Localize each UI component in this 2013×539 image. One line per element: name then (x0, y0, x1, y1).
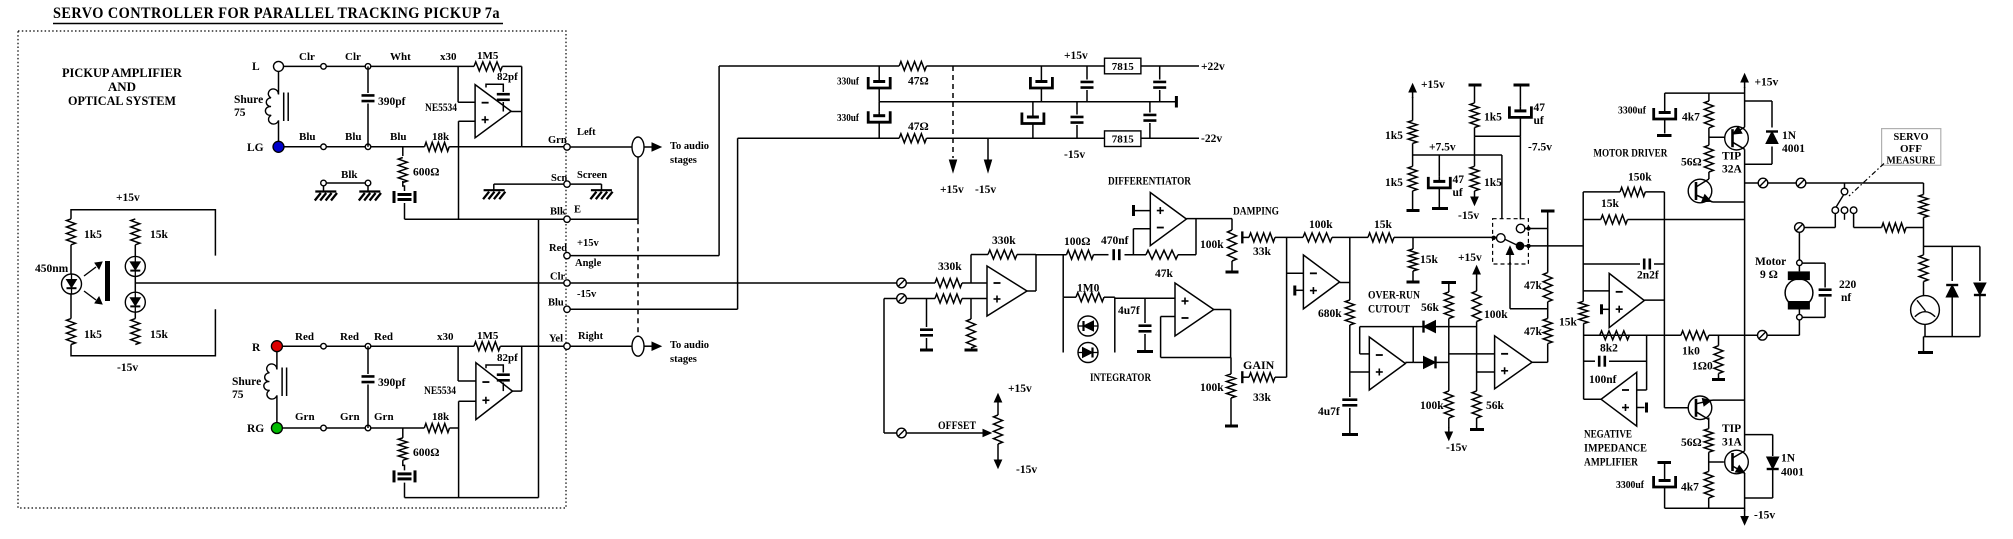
connector (slashed) angle signal (897, 278, 907, 288)
svg-text:OPTICAL SYSTEM: OPTICAL SYSTEM (68, 93, 176, 108)
wire+arrow: offset pot to +15v (997, 400, 999, 415)
0v tick on NIA + input (1637, 407, 1645, 409)
wire: over-run + input from lag node (1350, 371, 1370, 373)
svg-text:15k: 15k (1559, 317, 1578, 329)
feed-through capacitor (right channel 600ohm return) (403, 460, 405, 470)
svg-text:47Ω: 47Ω (908, 76, 929, 88)
svg-text:+15v: +15v (577, 238, 599, 249)
capacitor 470nf (series) (1112, 249, 1115, 260)
resistor 47ohm (+ rail) (899, 62, 926, 71)
wire: output rail lower section (1744, 473, 1746, 511)
svg-text:330k: 330k (938, 261, 962, 273)
svg-text:1Ω0: 1Ω0 (1692, 361, 1713, 373)
wire: 4k7 to bottom row (1708, 498, 1710, 508)
svg-text:8k2: 8k2 (1600, 343, 1618, 355)
svg-text:4u7f: 4u7f (1118, 305, 1140, 317)
svg-text:3300uf: 3300uf (1618, 105, 1646, 117)
svg-text:TIP: TIP (1722, 151, 1741, 163)
resistor 330k (non-inverting input, unlabelled) (906, 298, 935, 300)
op-amp over-run cutout (1369, 337, 1405, 390)
wire: over-run output to lower diode (1405, 361, 1413, 363)
svg-text:+15v: +15v (1421, 79, 1445, 91)
wire: damping 33k to summing node (1275, 236, 1303, 238)
resistor 4k7 (lower bias) (1704, 471, 1713, 498)
svg-text:SERVO CONTROLLER FOR PARALLEL: SERVO CONTROLLER FOR PARALLEL TRACKING P… (53, 5, 500, 22)
wire: measure resistor to meter chain (1906, 227, 1923, 229)
arrow +15v (bias chain) (1412, 90, 1414, 98)
svg-text:450nm: 450nm (35, 263, 69, 275)
resistor 680k (lag network) (1345, 300, 1354, 325)
cable ellipse (left output) (632, 137, 644, 157)
clamp diode (circled, pointing right) (1078, 343, 1098, 363)
resistor 600ohm (left channel) (402, 147, 404, 156)
capacitor 100nf (NIA) (1584, 360, 1595, 362)
capacitor 3300uf (- rail reservoir) (1664, 464, 1666, 476)
resistor 47k (lower, to switch node) (1543, 319, 1552, 344)
svg-text:1M0: 1M0 (1077, 283, 1100, 295)
resistor 33k (damping) (1244, 236, 1250, 238)
svg-text:Red: Red (295, 331, 314, 343)
feed-through capacitor (left channel 600ohm return) (403, 181, 405, 191)
wire: driver output vertical to both base rows (1663, 192, 1665, 408)
svg-text:TIP: TIP (1722, 423, 1741, 435)
op-amp negative impedance amplifier (points left) (1601, 372, 1637, 426)
svg-text:75: 75 (232, 389, 244, 401)
svg-text:33k: 33k (1253, 246, 1272, 258)
regulator 7815 (-) (1105, 131, 1141, 147)
svg-text:32A: 32A (1722, 164, 1743, 176)
wire: output to main node (1027, 290, 1036, 292)
0v bar above right bias chain (1469, 84, 1482, 87)
wire: lower base row (1664, 407, 1688, 409)
svg-text:100k: 100k (1484, 309, 1508, 321)
potentiometer offset (vertical) (994, 415, 1003, 444)
light ray arrows from LED (84, 267, 96, 276)
LED 450nm (62, 274, 82, 294)
svg-text:RG: RG (247, 423, 264, 435)
0v bar under damping pot (1226, 271, 1239, 274)
resistor 56k (pulldown to 0v bar) (1472, 391, 1481, 418)
arrow -15v (bias chain) (1474, 191, 1476, 199)
svg-text:47k: 47k (1524, 326, 1543, 338)
capacitor 330uf (input, + rail) (878, 66, 880, 77)
resistor 100k (summing) (1303, 233, 1332, 242)
wire: 1M5 to feedback vertical and Yel terminal (500, 345, 567, 347)
0v tick on error amp + input (1293, 286, 1296, 296)
capacitor 47uf (+7.5v rail) (1438, 155, 1440, 177)
wire: R to coil, coil to RG (276, 352, 278, 370)
svg-text:-15v: -15v (1064, 149, 1085, 161)
wire: screen row to outside ground (570, 183, 601, 185)
motor terminal (upper) (1797, 260, 1803, 266)
wire: upper driver emitter to output rail (1713, 201, 1745, 203)
capacitor 390pf (left channel) (367, 66, 369, 93)
wire: 4k7 to 56 ohm, base tap (1708, 128, 1710, 145)
potentiometer 100k DAMPING (1231, 219, 1233, 230)
dash-dot pointer from box to switch (1849, 164, 1884, 197)
svg-text:+7.5v: +7.5v (1429, 142, 1456, 154)
0v bar under meter (1918, 351, 1933, 354)
wire: +15v rail into TIP32A emitter (1744, 87, 1746, 127)
svg-text:Right: Right (578, 331, 604, 342)
svg-text:-15v: -15v (1016, 464, 1037, 476)
wire: error amp - input (1287, 272, 1304, 274)
capacitor 3300uf (+ rail reservoir) (1664, 93, 1666, 108)
svg-text:600Ω: 600Ω (413, 447, 439, 459)
terminal on border: Blk/E (564, 216, 570, 222)
wire: x30 tap to op-amp - input (457, 66, 459, 102)
wire: contact A to motor feed (1834, 214, 1836, 228)
ground (hatched) screen outside (591, 189, 612, 191)
resistor 1k5 (upper right bias) (1474, 85, 1476, 103)
wire: -7.5v down to switch NC contact (1519, 136, 1521, 219)
motor body (1785, 279, 1813, 307)
wire: 56k to - node and 100k pulldown (1448, 319, 1450, 392)
svg-text:Scn: Scn (551, 173, 568, 184)
svg-text:Blu: Blu (299, 131, 316, 143)
diode (cathode right, lower) (1424, 356, 1436, 368)
wire: gain 33k to summing vertical (1275, 376, 1287, 378)
svg-text:1k5: 1k5 (1484, 112, 1502, 124)
svg-text:1k5: 1k5 (84, 329, 102, 341)
wire: diode clamp rails (1062, 297, 1064, 352)
svg-text:-7.5v: -7.5v (1528, 142, 1552, 154)
svg-text:1N: 1N (1782, 130, 1797, 142)
resistor 100ohm (1067, 250, 1094, 259)
0v bar above lower 3300uf (1658, 461, 1672, 464)
svg-text:56k: 56k (1421, 302, 1440, 314)
op-amp angle input stage (987, 266, 1027, 316)
motor terminal (lower) (1797, 314, 1803, 320)
wire: diff - input (1132, 229, 1134, 255)
transistor TIP31A (NPN lower output) (1725, 450, 1749, 474)
svg-text:uf: uf (1534, 115, 1544, 127)
terminal L (open circle) (274, 61, 284, 71)
resistor 1ohm0 (current sense) (1718, 335, 1720, 345)
svg-text:To audio: To audio (670, 141, 709, 152)
wire: over-run - input from diode loop (1360, 353, 1370, 355)
wire: 680k to 4u7f (1349, 325, 1351, 397)
wire: summing vertical (damping/gain join, error amp - input) (1286, 237, 1288, 377)
resistor 33k (gain) (1244, 376, 1250, 378)
capacitor 2n2f (AC feedback) (1583, 263, 1640, 265)
resistor 100k (pullup to +15v) (1476, 280, 1478, 291)
resistor 47k (upper, to switch contact) (1543, 273, 1552, 302)
wire: +15v arrow to 1k5 (1412, 97, 1414, 121)
svg-text:15k: 15k (1601, 198, 1620, 210)
box SERVO OFF MEASURE (1882, 129, 1941, 166)
wire: upper threshold row (1360, 326, 1424, 328)
svg-text:NEGATIVE: NEGATIVE (1584, 427, 1632, 441)
0v bar under 1ohm0 (1718, 374, 1720, 379)
wire: op-amp output to feedback vertical (right ch) (513, 390, 522, 392)
wire: photodiode centre tap to Angle line (135, 282, 567, 284)
0V rail terminator bar (1175, 96, 1178, 108)
junction pin (Grn) (321, 425, 327, 431)
svg-text:-15v: -15v (1754, 510, 1775, 522)
transistor driver NPN (upper) (1708, 172, 1710, 179)
svg-text:Left: Left (577, 127, 596, 138)
svg-text:IMPEDANCE: IMPEDANCE (1584, 441, 1647, 455)
switch lever (1505, 239, 1516, 244)
svg-text:220: 220 (1839, 279, 1857, 291)
svg-text:4k7: 4k7 (1682, 112, 1700, 124)
wire: -15v bottom rail of optical bridge (71, 309, 215, 355)
wire: 330k feedback loop (970, 255, 972, 284)
connector (slashed) offset return (897, 294, 907, 304)
resistor 330k (feedback) (988, 250, 1017, 259)
wire: dashed +15v take-off with arrow (952, 66, 954, 158)
svg-text:100k: 100k (1200, 382, 1224, 394)
op-amp NE5534 (right channel) (476, 363, 513, 420)
svg-text:-15v: -15v (1458, 210, 1479, 222)
svg-text:Red: Red (340, 331, 359, 343)
wire: 15k row to output rail (1628, 219, 1745, 221)
svg-text:33k: 33k (1253, 392, 1272, 404)
wire: L to coil, coil to LG (278, 71, 280, 94)
wire: cable screen vertical (solid part) (637, 157, 639, 219)
capacitor 82pf (left channel feedback) (486, 84, 503, 92)
resistor 600ohm (right channel) (402, 428, 404, 438)
wire: output rail (TIP32A collector down) (1744, 149, 1746, 451)
capacitor 47uf (-7.5v rail) (1519, 85, 1521, 106)
capacitor 82pf (right channel feedback) (486, 365, 503, 373)
svg-text:15k: 15k (150, 329, 169, 341)
svg-text:Blu: Blu (345, 131, 362, 143)
svg-text:-15v: -15v (577, 289, 597, 300)
svg-text:1k0: 1k0 (1682, 346, 1700, 358)
wire: Left output row to cable ellipse (570, 146, 632, 148)
0v tick on driver + input (1600, 304, 1603, 314)
svg-text:LG: LG (247, 142, 264, 154)
svg-text:15k: 15k (150, 229, 169, 241)
resistor to 0v on + input (970, 299, 972, 320)
resistor 1k5 (lower left, optical bridge) (67, 319, 76, 345)
wire: op-amp + input (458, 121, 460, 147)
wire: motor return row (1798, 320, 1800, 335)
wire: lower row diode to comparator - node (1436, 361, 1449, 363)
arrow to audio stages (left) (644, 146, 652, 148)
junction pin (Blu) (321, 144, 327, 150)
svg-text:Clr: Clr (345, 51, 361, 63)
svg-text:15k: 15k (1420, 254, 1439, 266)
svg-text:4k7: 4k7 (1681, 482, 1699, 494)
svg-text:47Ω: 47Ω (908, 121, 929, 133)
svg-text:600Ω: 600Ω (413, 167, 439, 179)
svg-text:1k5: 1k5 (1385, 177, 1403, 189)
resistor 1k5 (lower right bias to -15v) (1474, 136, 1476, 166)
svg-text:15k: 15k (1374, 219, 1393, 231)
svg-text:4001: 4001 (1781, 467, 1804, 479)
0v bar above -7.5v 47uf (1514, 84, 1530, 87)
0v bar above 47k chain (1541, 210, 1555, 213)
op-amp NE5534 (left channel) (475, 85, 511, 138)
regulator 7815 (+) (1105, 58, 1141, 74)
Shure 75 cartridge coil (left) (265, 89, 278, 124)
svg-text:Clr: Clr (299, 51, 315, 63)
wire: Angle row to servo input connector (570, 282, 897, 284)
terminal R (red) (271, 341, 282, 352)
svg-text:330uf: 330uf (837, 76, 859, 88)
resistor 47k (diff feedback) (1146, 250, 1178, 259)
actuator arrow (over-run trip) (1509, 253, 1511, 265)
svg-text:Blu: Blu (390, 131, 407, 143)
resistor (meter chain upper, unlabelled) (1923, 183, 1925, 195)
svg-text:OFFSET: OFFSET (938, 420, 976, 432)
wire: 1k5 to LED anode (70, 245, 72, 274)
wire: output row to Grn terminal (522, 146, 567, 148)
wire: Right output row to cable ellipse (570, 345, 632, 347)
0v bar under gain pot (1225, 425, 1238, 428)
wire: +22v top rail (719, 65, 899, 67)
arrow to audio stages (right) (644, 345, 652, 347)
wire: 470nf to diff - input node (1125, 254, 1147, 256)
wire: NIA output to node (1584, 398, 1602, 400)
wire: 18k to op-amp + node, down to E row (449, 146, 522, 148)
terminal RG (green) (271, 423, 282, 434)
clamp diode (circled, pointing left) (1078, 316, 1098, 336)
wire: 15k to changeover switch (1394, 236, 1496, 238)
svg-text:18k: 18k (432, 411, 450, 423)
wire: upper photodiode connections (134, 245, 136, 257)
svg-text:+15v: +15v (1458, 252, 1482, 264)
capacitor ceramic (7815 output, + rail) (1159, 66, 1161, 80)
transistor driver (lower) (1688, 396, 1712, 420)
ground (hatched) cartridge screen (484, 189, 505, 191)
wire: link + input to offset network (884, 298, 897, 300)
junction pin (Clr/Wht) (365, 64, 371, 70)
resistor 1M5 (right channel feedback) (474, 342, 500, 351)
wire: error amp output to node (1340, 282, 1350, 284)
wire: NIA output node vertical (1583, 324, 1585, 400)
svg-text:680k: 680k (1318, 308, 1342, 320)
transistor TIP32A (PNP upper output) (1725, 126, 1749, 150)
svg-text:1k5: 1k5 (1385, 130, 1403, 142)
resistor (meter series, unlabelled) (1923, 246, 1925, 255)
terminal on border: Red/+15v (564, 252, 570, 258)
capacitor 330uf (input, - rail) (878, 102, 880, 111)
svg-text:390pf: 390pf (378, 377, 406, 389)
svg-text:47k: 47k (1155, 268, 1174, 280)
wire: upper row diode to 100k pullup (1436, 326, 1477, 328)
gain wiper tick (1241, 371, 1243, 383)
resistor 56k (pullup to 0v bar) (1448, 283, 1450, 293)
svg-text:47: 47 (1453, 174, 1465, 186)
svg-text:MOTOR DRIVER: MOTOR DRIVER (1593, 145, 1667, 159)
wire: 0V middle rail (879, 101, 1176, 103)
wire: summing row between 100k and 15k (1332, 236, 1368, 238)
wire: 150k row to output vertical / base row (1645, 191, 1664, 193)
switch common contact (open circle) (1497, 234, 1506, 243)
svg-text:-15v: -15v (975, 184, 996, 196)
wire: feedback to output node (1017, 254, 1036, 256)
svg-text:100k: 100k (1309, 219, 1333, 231)
wire: E row inside box (405, 218, 568, 220)
ground (hatched) under Blk pin 2 (359, 190, 380, 192)
svg-text:4u7f: 4u7f (1318, 406, 1340, 418)
svg-text:To audio: To audio (670, 340, 709, 351)
svg-text:x30: x30 (437, 331, 454, 343)
svg-text:3300uf: 3300uf (1616, 479, 1644, 491)
wire: main signal line to differentiator & integrator (1036, 254, 1067, 256)
svg-text:100nf: 100nf (1589, 374, 1617, 386)
junction pin (Red) (321, 343, 327, 349)
capacitor to 0v on + input (926, 299, 928, 328)
meter (moving coil) (1911, 296, 1940, 325)
svg-text:stages: stages (670, 155, 697, 166)
svg-text:82pf: 82pf (497, 352, 518, 364)
junction pin (Blu) (365, 144, 371, 150)
switch pole (servo-off-measure) (1844, 183, 1846, 188)
svg-text:Angle: Angle (575, 258, 602, 269)
svg-text:Grn: Grn (295, 411, 315, 423)
connector (slashed) motor return (1758, 331, 1768, 341)
wire: NIA - input vertical from sense row (1646, 335, 1648, 390)
wire: bottom row RG to 18k (282, 427, 424, 429)
svg-text:GAIN: GAIN (1243, 358, 1275, 372)
svg-text:PICKUP AMPLIFIER: PICKUP AMPLIFIER (62, 65, 183, 80)
arrow to -15v under 100k (1448, 427, 1450, 434)
wire: TIP31A base row (1708, 452, 1710, 471)
svg-text:100Ω: 100Ω (1064, 236, 1090, 248)
wire: diode clamp top rail (1924, 245, 1980, 247)
terminal on border: Grn/Left (564, 144, 570, 150)
switch contact B (off) (1841, 207, 1848, 214)
svg-text:100k: 100k (1420, 400, 1444, 412)
junction pin (Red) (365, 343, 371, 349)
capacitor ceramic (7815 input, + rail) (1086, 66, 1088, 80)
wire: +7.5v node row to switch box (1412, 143, 1414, 166)
wire: top row R to 1M5 (282, 345, 474, 347)
resistor 18k (right channel) (424, 424, 449, 433)
wire: lower driver emitter to output rail (1713, 399, 1745, 401)
svg-text:330uf: 330uf (837, 112, 859, 124)
resistor 1M5 (left channel feedback) (474, 62, 502, 71)
0v bar under 15k pulldown (1407, 281, 1420, 284)
connector (slashed) measure 2 (1796, 178, 1806, 188)
capacitor ceramic (7815 output, - rail) (1149, 102, 1151, 113)
svg-text:470nf: 470nf (1101, 235, 1129, 247)
svg-text:L: L (252, 61, 260, 73)
0v bar under lag 4u7f (1349, 408, 1351, 433)
resistor 15k (feedback from output rail) (1583, 219, 1601, 221)
svg-text:7815: 7815 (1112, 61, 1135, 73)
svg-text:Shure: Shure (234, 94, 263, 106)
wire: mid node of 47k divider to switch actuator (1547, 302, 1549, 319)
wire: +15v top rail of optical bridge (71, 210, 215, 256)
svg-text:47: 47 (1534, 102, 1546, 114)
wire: -15v take-off with arrow (987, 138, 989, 160)
capacitor 4u7f (lag network) (1342, 398, 1357, 401)
resistor 15k pulldown (after summing) (1412, 237, 1414, 249)
svg-text:nf: nf (1841, 292, 1851, 304)
svg-text:390pf: 390pf (378, 96, 406, 108)
connector (slashed) measure 1 (1758, 178, 1768, 188)
wire: contact C to measure network (1853, 214, 1855, 228)
resistor 47ohm (- rail) (899, 134, 926, 143)
svg-text:330k: 330k (992, 235, 1016, 247)
wire: 100k pullup to + node (1476, 322, 1478, 392)
wire: integrator + input row (1115, 297, 1175, 299)
wire: 47k top to NC contact row and 0v bar (1547, 212, 1549, 273)
wire: comparator - input row (1449, 353, 1495, 355)
capacitor 4u7f (integrator) (1144, 298, 1146, 323)
op-amp motor driver input stage (1609, 273, 1644, 327)
wire: 100ohm to 470nf (1094, 254, 1109, 256)
svg-text:150k: 150k (1628, 172, 1652, 184)
svg-text:1N: 1N (1781, 453, 1796, 465)
switch moving contact (filled circle) (1516, 242, 1525, 251)
